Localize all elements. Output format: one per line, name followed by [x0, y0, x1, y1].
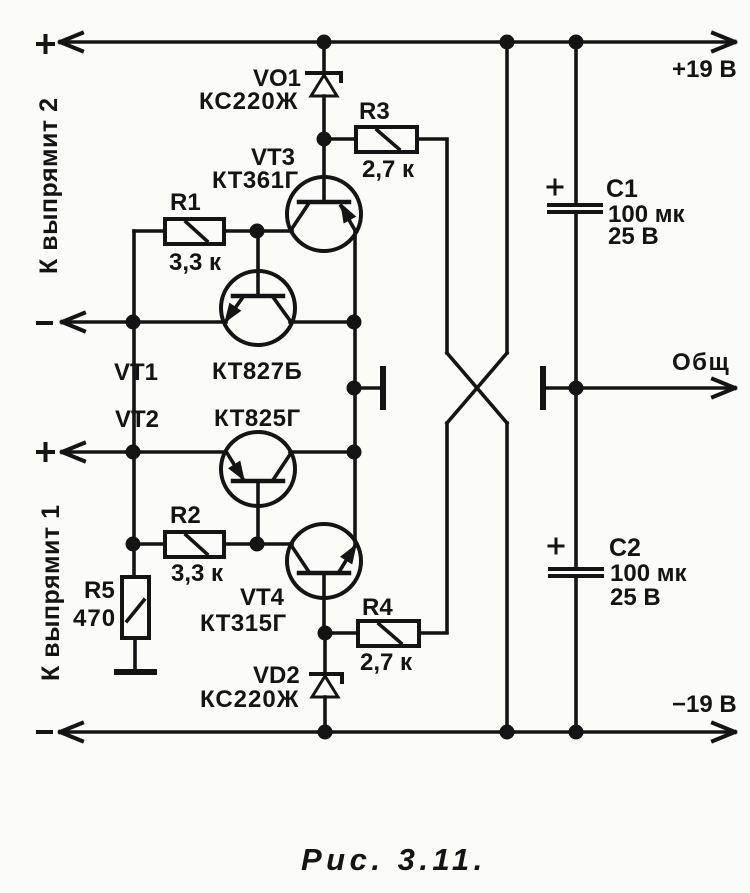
svg-text:К выпрямит 1: К выпрямит 1: [37, 504, 65, 681]
wire R5 bottom lead: [133, 638, 137, 669]
wire crossover diagonal left-to-right: [447, 353, 507, 423]
node plus sign left: [38, 444, 53, 460]
svg-text:Рис. 3.11.: Рис. 3.11.: [301, 842, 487, 877]
transistor VT4: [287, 524, 361, 633]
node arrow on plus line: [62, 443, 84, 461]
zener diode VO1: [307, 73, 341, 96]
node arrow on Obshch output: [713, 379, 735, 397]
node plus sign top-left: [38, 36, 53, 52]
svg-text:C1: C1: [606, 175, 638, 203]
wire minus output of rectifier 2: [62, 320, 226, 324]
svg-text:C2: C2: [609, 534, 641, 562]
svg-text:VD2: VD2: [253, 662, 300, 689]
resistor R1: [165, 219, 224, 244]
wire VD2 top lead: [323, 633, 327, 674]
svg-text:R4: R4: [362, 594, 393, 621]
node junction dots: [126, 35, 584, 740]
svg-text:R2: R2: [170, 502, 201, 529]
svg-text:КТ315Г: КТ315Г: [200, 610, 287, 637]
wire R3 left lead: [324, 137, 356, 141]
wire R1 left lead: [134, 229, 165, 233]
wire crossover right bottom to -19V rail: [505, 423, 509, 732]
wire plus output of rectifier 1: [62, 450, 226, 454]
svg-text:470: 470: [73, 605, 116, 632]
resistor R5: [122, 577, 149, 638]
svg-text:КС220Ж: КС220Ж: [199, 88, 298, 115]
wire crossover left bottom to R4: [419, 423, 447, 633]
ground: [117, 669, 154, 675]
wire bottom -19V rail: [60, 730, 734, 734]
resistor R3: [356, 127, 417, 152]
capacitor C1: [549, 205, 601, 212]
wire top +19V rail: [60, 40, 734, 44]
wire crossover diagonal right-to-left: [447, 353, 507, 423]
wire C1 bottom lead: [574, 213, 578, 388]
svg-text:3,3 к: 3,3 к: [171, 560, 224, 587]
svg-text:Общ: Общ: [672, 349, 730, 376]
svg-text:25 В: 25 В: [610, 584, 661, 611]
svg-text:2,7 к: 2,7 к: [362, 156, 415, 183]
node C1 plus sign: [548, 180, 562, 194]
wire right pin to Obshch junction: [546, 386, 576, 390]
wire VO1 bottom lead into VT3: [322, 96, 326, 202]
node arrow right of top rail: [713, 33, 735, 51]
node minus sign bottom-left: [38, 730, 51, 734]
svg-text:КТ361Г: КТ361Г: [212, 167, 299, 194]
svg-text:−19 В: −19 В: [672, 691, 737, 718]
svg-text:КТ825Г: КТ825Г: [214, 405, 301, 432]
svg-text:VT4: VT4: [240, 584, 285, 611]
svg-text:100 мк: 100 мк: [610, 560, 687, 587]
node arrow left of top rail: [60, 33, 82, 51]
svg-text:VT1: VT1: [114, 359, 158, 386]
wire C2 top lead: [574, 388, 578, 567]
wire R2 left lead: [134, 542, 165, 546]
wire VT2 collector to bus: [290, 450, 355, 454]
node C2 plus sign: [549, 539, 563, 553]
svg-text:R3: R3: [359, 98, 390, 125]
wire VT1 collector to bus: [290, 320, 355, 324]
node right connector pin: [540, 369, 546, 407]
node arrow left of bottom rail: [60, 723, 82, 741]
svg-text:КС220Ж: КС220Ж: [200, 686, 299, 713]
svg-text:25 В: 25 В: [608, 223, 659, 250]
resistor R2: [165, 532, 224, 557]
capacitor C2: [550, 569, 602, 576]
wire Obshch output: [576, 386, 734, 390]
wire R2 right lead to VT4: [224, 542, 292, 546]
transistor VT3: [287, 177, 361, 251]
wire C2 bottom lead: [574, 577, 578, 732]
node arrow right of bottom rail: [713, 723, 735, 741]
node minus sign left: [38, 321, 51, 325]
svg-text:+19 В: +19 В: [672, 56, 737, 83]
svg-text:VT2: VT2: [115, 406, 159, 433]
svg-text:К выпрямит 2: К выпрямит 2: [35, 97, 63, 274]
svg-text:КТ827Б: КТ827Б: [212, 358, 302, 385]
svg-text:3,3 к: 3,3 к: [169, 249, 222, 276]
transistor VT1: [221, 232, 295, 345]
wire left vertical bus: [132, 231, 136, 577]
svg-text:R5: R5: [84, 577, 115, 604]
wire center emitter bus: [353, 231, 357, 546]
wire from top rail down to crossover: [505, 42, 509, 353]
wire VO1 top lead: [322, 42, 326, 73]
wire bus to left connector pin: [355, 386, 380, 390]
wire VD2 bottom lead: [323, 697, 327, 732]
node left connector pin: [380, 369, 386, 407]
node arrow on minus line: [62, 313, 84, 331]
wire R1 right lead to VT3 base area: [224, 229, 292, 233]
wire C1 top lead: [574, 42, 578, 203]
wire R4 left lead: [325, 631, 358, 635]
svg-text:2,7 к: 2,7 к: [360, 649, 413, 676]
transistor VT2: [221, 432, 295, 544]
svg-text:R1: R1: [170, 189, 201, 216]
zener diode VD2: [311, 674, 342, 697]
wire R3 right lead with corner: [417, 139, 447, 353]
resistor R4: [358, 621, 419, 646]
